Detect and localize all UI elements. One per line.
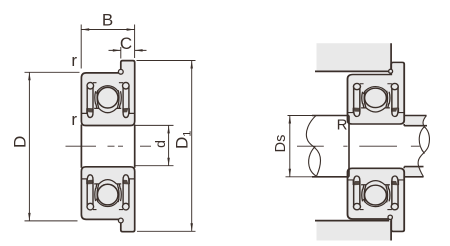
svg-text:r: r	[71, 51, 77, 70]
svg-text:B: B	[102, 11, 113, 30]
svg-text:Ds: Ds	[273, 135, 289, 153]
svg-text:d: d	[152, 140, 168, 148]
svg-text:C: C	[120, 34, 132, 53]
svg-text:r: r	[71, 110, 77, 129]
svg-text:R: R	[337, 116, 348, 133]
svg-text:D: D	[10, 136, 29, 148]
